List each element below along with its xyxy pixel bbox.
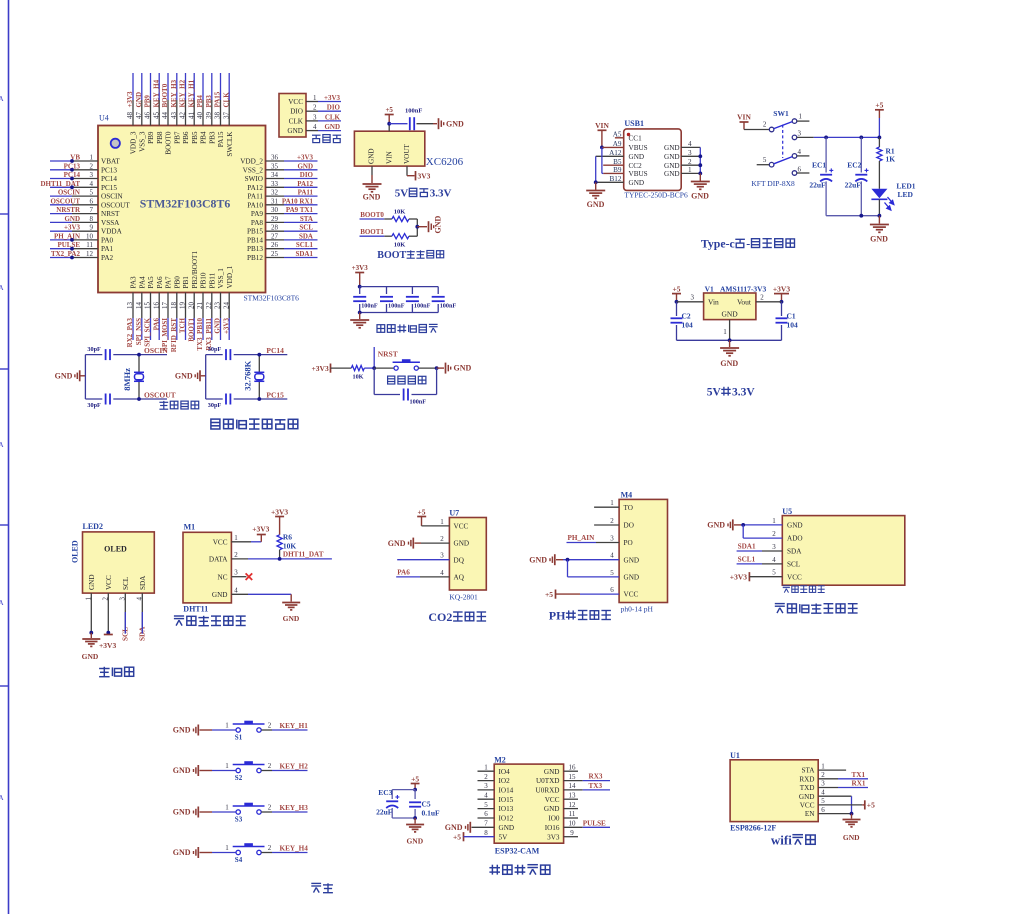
svg-text:KEY_H3: KEY_H3 <box>280 804 309 812</box>
svg-text:2: 2 <box>610 517 614 525</box>
label 光照强度传感器 <box>775 604 785 614</box>
svg-text:11: 11 <box>569 810 576 818</box>
svg-text:PC14: PC14 <box>266 346 284 355</box>
svg-text:9: 9 <box>90 224 94 232</box>
usb right pins <box>681 146 700 148</box>
svg-text:+3V3: +3V3 <box>312 364 329 373</box>
svg-text:PA5: PA5 <box>147 276 155 289</box>
svg-text:VIN: VIN <box>386 150 394 164</box>
net NRST <box>373 347 375 368</box>
svg-text:VBUS: VBUS <box>629 144 648 152</box>
mcu left pins 1-12 <box>50 160 72 162</box>
svg-text:DQ: DQ <box>454 556 465 564</box>
svg-text:PB14: PB14 <box>247 236 263 244</box>
svg-text:KQ-2801: KQ-2801 <box>449 593 478 602</box>
svg-text:M2: M2 <box>494 755 506 764</box>
svg-text:STM32F103C8T6: STM32F103C8T6 <box>140 197 231 211</box>
svg-text:PA6: PA6 <box>152 318 160 331</box>
svg-text:VCC: VCC <box>105 575 113 590</box>
svg-text:2: 2 <box>268 804 272 812</box>
svg-text:KEY_H2: KEY_H2 <box>179 79 187 107</box>
svg-text:PA10: PA10 <box>247 201 263 209</box>
svg-text:+3V3: +3V3 <box>773 285 790 294</box>
connector 下载口 <box>279 94 306 138</box>
svg-text:A: A <box>0 794 4 802</box>
svg-text:+3V3: +3V3 <box>64 224 81 232</box>
sheet border frame <box>8 0 10 914</box>
svg-text:1: 1 <box>234 534 238 542</box>
svg-text:GND: GND <box>324 123 340 131</box>
svg-text:GND: GND <box>297 162 313 170</box>
svg-text:KEY_H1: KEY_H1 <box>280 722 309 730</box>
svg-text:2: 2 <box>268 844 272 852</box>
svg-text:KEY_H4: KEY_H4 <box>280 844 309 852</box>
svg-text:5V: 5V <box>707 387 722 399</box>
regulator XC6206 <box>354 131 424 166</box>
svg-text:PB2/BOOT1: PB2/BOOT1 <box>191 251 199 289</box>
svg-text:IO0: IO0 <box>548 815 560 823</box>
svg-text:SPI_NSS: SPI_NSS <box>135 318 143 345</box>
label 单片机最小系统 <box>211 419 220 429</box>
svg-text:DO: DO <box>624 522 634 530</box>
svg-text:OSCIN: OSCIN <box>144 346 168 355</box>
svg-text:104: 104 <box>787 321 799 330</box>
svg-text:U0RXD: U0RXD <box>536 787 560 795</box>
svg-text:IO2: IO2 <box>499 777 511 785</box>
junction node <box>416 219 418 236</box>
svg-text:100nF: 100nF <box>388 303 405 310</box>
svg-text:23: 23 <box>214 302 222 310</box>
cap EC3 22uF <box>386 800 398 802</box>
svg-text:1: 1 <box>799 113 803 121</box>
gnd <box>406 824 424 826</box>
svg-text:PB1: PB1 <box>182 276 190 289</box>
svg-text:PA9: PA9 <box>251 210 264 218</box>
svg-text:3.3V: 3.3V <box>430 188 452 200</box>
svg-text:GND: GND <box>175 371 193 380</box>
svg-text:GND: GND <box>721 310 738 319</box>
svg-text:SDA: SDA <box>139 575 147 590</box>
svg-text:OSCIN: OSCIN <box>58 189 80 197</box>
svg-text:PB9: PB9 <box>147 131 155 144</box>
svg-text:1: 1 <box>225 722 229 730</box>
svg-text:32.768K: 32.768K <box>242 360 252 390</box>
dht11 pin1 +3V3 <box>231 541 251 543</box>
svg-text:DIO: DIO <box>300 171 314 179</box>
label 复位电路 <box>388 376 395 384</box>
svg-text:DHT11_DAT: DHT11_DAT <box>283 551 324 559</box>
svg-text:2: 2 <box>440 535 444 543</box>
svg-text:CLK: CLK <box>222 92 230 108</box>
svg-text:+3V3: +3V3 <box>252 525 269 534</box>
label 按键 <box>311 883 321 892</box>
svg-text:8: 8 <box>90 215 94 223</box>
svg-text:4: 4 <box>798 148 802 156</box>
svg-text:EC3: EC3 <box>378 788 392 797</box>
label 显示屏 <box>99 667 110 677</box>
svg-text:S1: S1 <box>235 734 243 742</box>
svg-text:VSS_1: VSS_1 <box>217 268 225 289</box>
svg-text:VDD_3: VDD_3 <box>130 131 138 154</box>
svg-text:USB1: USB1 <box>624 119 644 128</box>
svg-text:M1: M1 <box>184 523 196 532</box>
svg-text:15: 15 <box>569 773 577 781</box>
svg-text:10: 10 <box>86 232 94 240</box>
svg-text:VBUS: VBUS <box>629 170 648 178</box>
svg-text:DIO: DIO <box>327 104 341 112</box>
svg-text:104: 104 <box>682 321 694 330</box>
svg-text:GND: GND <box>388 539 406 548</box>
svg-text:PB5: PB5 <box>191 131 199 144</box>
svg-text:PA8: PA8 <box>251 219 264 227</box>
svg-text:GND: GND <box>287 127 303 135</box>
svg-text:GND: GND <box>212 591 228 599</box>
svg-text:RX3: RX3 <box>589 773 603 781</box>
svg-text:37: 37 <box>222 112 230 120</box>
svg-text:GND: GND <box>664 170 680 178</box>
push button <box>374 367 394 369</box>
svg-text:PA10 RX1: PA10 RX1 <box>282 197 314 205</box>
svg-text:3: 3 <box>119 597 127 601</box>
svg-text:U4: U4 <box>99 114 109 123</box>
label 下载口 <box>312 135 321 142</box>
svg-text:3: 3 <box>90 171 94 179</box>
svg-text:3V3: 3V3 <box>547 833 560 841</box>
svg-text:GND: GND <box>64 215 80 223</box>
svg-text:S2: S2 <box>235 774 243 782</box>
svg-text:VIN: VIN <box>595 121 609 130</box>
svg-text:RFID_RST: RFID_RST <box>170 318 178 353</box>
svg-text:VSS_2: VSS_2 <box>243 166 264 174</box>
svg-text:ESP32-CAM: ESP32-CAM <box>495 847 540 856</box>
svg-text:GND: GND <box>173 726 191 735</box>
svg-text:DATA: DATA <box>209 556 228 564</box>
svg-text:39: 39 <box>205 112 213 120</box>
svg-text:DIO: DIO <box>290 108 303 116</box>
svg-text:4: 4 <box>484 792 488 800</box>
svg-text:14: 14 <box>135 302 143 310</box>
svg-text:SDA: SDA <box>299 232 313 240</box>
svg-text:C5: C5 <box>422 800 431 809</box>
svg-text:+3V3: +3V3 <box>222 318 230 335</box>
svg-text:22uF: 22uF <box>376 808 393 817</box>
svg-text:GND: GND <box>173 808 191 817</box>
svg-text:TXD: TXD <box>800 784 815 792</box>
svg-text:PC13: PC13 <box>101 166 117 174</box>
svg-text:1: 1 <box>610 499 614 507</box>
svg-text:GND: GND <box>446 119 464 128</box>
svg-text:GND: GND <box>135 92 143 108</box>
svg-text:PA4: PA4 <box>138 276 146 289</box>
svg-text:DHT11_DAT: DHT11_DAT <box>40 180 80 188</box>
svg-text:OSCOUT: OSCOUT <box>144 391 176 400</box>
mcu right pins 36-25 <box>266 160 285 162</box>
svg-text:2: 2 <box>313 104 317 112</box>
svg-text:GND: GND <box>629 153 645 161</box>
mcu bottom pins 13-24 <box>132 293 134 319</box>
svg-text:NC: NC <box>218 573 228 581</box>
svg-text:BOOT0: BOOT0 <box>165 131 173 155</box>
label 晶振电路 <box>159 401 168 409</box>
svg-text:GND: GND <box>587 200 605 209</box>
svg-text:TO: TO <box>624 504 633 512</box>
svg-text:PB4: PB4 <box>200 131 208 144</box>
svg-text:VCC: VCC <box>454 523 469 531</box>
svg-text:TX3: TX3 <box>589 782 603 790</box>
svg-text:CC1: CC1 <box>629 134 643 142</box>
svg-text:0.1uF: 0.1uF <box>422 809 441 818</box>
svg-text:VCC: VCC <box>213 538 228 546</box>
label 光照传感器 <box>783 586 790 593</box>
svg-text:3: 3 <box>234 569 238 577</box>
svg-text:29: 29 <box>271 215 279 223</box>
svg-text:Vin: Vin <box>708 298 719 307</box>
svg-text:100nF: 100nF <box>410 399 427 406</box>
svg-text:+3V3: +3V3 <box>99 641 116 650</box>
svg-text:A: A <box>0 95 4 103</box>
svg-text:Type-c: Type-c <box>701 237 735 251</box>
svg-text:IO13: IO13 <box>499 805 514 813</box>
svg-text:2: 2 <box>763 121 767 129</box>
svg-text:BOOT1: BOOT1 <box>360 228 384 236</box>
svg-text:4: 4 <box>90 180 94 188</box>
svg-text:GND: GND <box>445 823 463 832</box>
svg-text:3: 3 <box>798 129 802 137</box>
svg-text:OLED: OLED <box>71 540 80 563</box>
svg-text:BOOT: BOOT <box>377 250 406 261</box>
svg-text:38: 38 <box>214 112 222 120</box>
svg-text:1: 1 <box>772 517 776 525</box>
svg-text:PB4: PB4 <box>196 95 204 108</box>
svg-text:PB15: PB15 <box>247 228 263 236</box>
svg-text:V1: V1 <box>705 285 714 294</box>
svg-text:+5: +5 <box>385 106 393 114</box>
svg-text:RX2_PA3: RX2_PA3 <box>126 318 134 348</box>
svg-text:IO12: IO12 <box>499 815 514 823</box>
svg-text:SWIO: SWIO <box>245 175 263 183</box>
svg-text:GND: GND <box>707 521 725 530</box>
svg-text:Vout: Vout <box>737 298 752 307</box>
svg-text:TX2_PA2: TX2_PA2 <box>51 250 81 258</box>
svg-text:OSCOUT: OSCOUT <box>50 197 80 205</box>
svg-text:SCL1: SCL1 <box>738 556 756 564</box>
svg-text:GND: GND <box>799 793 815 801</box>
cap C5 0.1uF <box>414 790 416 799</box>
svg-text:19: 19 <box>179 302 187 310</box>
svg-text:1: 1 <box>723 328 727 336</box>
svg-text:2: 2 <box>234 551 238 559</box>
svg-text:GND: GND <box>664 162 680 170</box>
svg-text:TCH: TCH <box>179 317 187 333</box>
svg-text:1K: 1K <box>886 155 896 164</box>
svg-text:18: 18 <box>170 302 178 310</box>
svg-text:1: 1 <box>484 763 488 771</box>
svg-text:22: 22 <box>205 302 213 310</box>
svg-text:PC15: PC15 <box>101 184 117 192</box>
svg-text:PB7: PB7 <box>173 131 181 144</box>
svg-text:PH_AIN: PH_AIN <box>54 232 80 240</box>
svg-text:6: 6 <box>484 810 488 818</box>
svg-text:45: 45 <box>152 112 160 120</box>
svg-text:GND: GND <box>454 364 472 373</box>
svg-text:2: 2 <box>90 162 94 170</box>
oled pin1 gnd <box>89 631 93 635</box>
svg-text:+5: +5 <box>411 774 419 783</box>
svg-text:KFT DIP-8X8: KFT DIP-8X8 <box>751 179 795 188</box>
svg-text:TYPEC-250D-BCP6: TYPEC-250D-BCP6 <box>624 191 688 200</box>
esp32 right wires <box>564 770 578 772</box>
mcu U4 STM32F103C8T6 <box>98 126 266 293</box>
svg-text:5V: 5V <box>499 833 509 841</box>
svg-text:20: 20 <box>187 302 195 310</box>
svg-text:PA7: PA7 <box>165 276 173 289</box>
svg-text:2: 2 <box>772 530 776 538</box>
svg-text:PA11: PA11 <box>248 193 264 201</box>
svg-text:NRST: NRST <box>101 210 120 218</box>
svg-text:8MHz: 8MHz <box>122 368 132 391</box>
svg-text:GND: GND <box>214 318 222 334</box>
svg-text:U1: U1 <box>730 751 740 760</box>
svg-text:GND: GND <box>55 371 73 380</box>
svg-text:PA12: PA12 <box>297 180 313 188</box>
svg-text:PULSE: PULSE <box>57 241 80 249</box>
svg-text:15: 15 <box>144 302 152 310</box>
svg-text:VOUT: VOUT <box>403 143 411 164</box>
svg-text:3V3: 3V3 <box>418 171 431 180</box>
svg-text:A: A <box>0 441 4 449</box>
svg-text:PA15: PA15 <box>217 131 225 147</box>
gnd <box>350 319 369 321</box>
svg-text:CC2: CC2 <box>629 162 643 170</box>
svg-text:1: 1 <box>688 166 692 174</box>
svg-text:GND: GND <box>82 652 99 661</box>
svg-text:OSCIN: OSCIN <box>101 193 123 201</box>
svg-text:100nF: 100nF <box>414 303 431 310</box>
svg-text:ADO: ADO <box>787 535 803 543</box>
svg-text:43: 43 <box>170 112 178 120</box>
capacitor 100nF <box>386 287 388 294</box>
svg-text:PB8: PB8 <box>156 131 164 144</box>
svg-text:13: 13 <box>569 792 577 800</box>
svg-text:GND: GND <box>720 359 738 368</box>
svg-text:U5: U5 <box>782 507 792 516</box>
svg-text:GND: GND <box>454 540 470 548</box>
svg-text:14: 14 <box>569 782 577 790</box>
svg-text:CLK: CLK <box>325 113 341 121</box>
svg-text:TX1: TX1 <box>852 771 866 779</box>
svg-text:PA0: PA0 <box>101 236 114 244</box>
svg-text:3: 3 <box>691 294 695 302</box>
svg-text:+3V3: +3V3 <box>271 508 288 517</box>
svg-text:1: 1 <box>85 597 93 601</box>
svg-text:CO2: CO2 <box>428 610 452 624</box>
svg-text:6: 6 <box>798 165 802 173</box>
svg-text:AMS1117-3V3: AMS1117-3V3 <box>720 285 767 294</box>
svg-text:GND: GND <box>406 837 423 846</box>
svg-text:16: 16 <box>569 763 577 771</box>
svg-text:NRSTR: NRSTR <box>56 206 81 214</box>
svg-text:VCC: VCC <box>800 802 815 810</box>
svg-text:1: 1 <box>225 804 229 812</box>
svg-text:47: 47 <box>135 112 143 120</box>
svg-text:9: 9 <box>570 829 574 837</box>
svg-text:BOOT0: BOOT0 <box>360 211 384 219</box>
svg-text:LED2: LED2 <box>83 522 103 531</box>
power +5 <box>385 114 394 116</box>
svg-text:36: 36 <box>271 154 279 162</box>
svg-text:PO: PO <box>624 539 633 547</box>
svg-text:GND: GND <box>629 179 645 187</box>
svg-text:SDA1: SDA1 <box>295 250 313 258</box>
svg-text:GND: GND <box>664 144 680 152</box>
svg-text:3: 3 <box>610 535 614 543</box>
svg-text:33: 33 <box>271 180 279 188</box>
svg-text:GND: GND <box>368 148 376 164</box>
wifi pin wires <box>818 769 846 771</box>
svg-text:+5: +5 <box>875 101 883 110</box>
svg-text:GND: GND <box>870 235 888 244</box>
svg-text:7: 7 <box>90 206 94 214</box>
svg-text:PC15: PC15 <box>266 391 284 400</box>
svg-text:32: 32 <box>271 189 279 197</box>
svg-text:GND: GND <box>499 824 515 832</box>
svg-text:10K: 10K <box>352 374 363 381</box>
gnd <box>870 224 889 226</box>
svg-text:GND: GND <box>691 192 709 201</box>
svg-text:EC2: EC2 <box>847 161 861 170</box>
svg-text:2: 2 <box>484 773 488 781</box>
wires usb left <box>615 137 624 139</box>
svg-text:1: 1 <box>821 762 825 770</box>
gnd port right of cap <box>433 123 437 125</box>
svg-text:wifi: wifi <box>771 833 792 848</box>
svg-text:ESP8266-12F: ESP8266-12F <box>730 824 776 833</box>
svg-text:IO15: IO15 <box>499 796 514 804</box>
svg-text:SDA1: SDA1 <box>738 543 756 551</box>
mcu top pins 48-37 <box>132 73 134 100</box>
svg-text:S4: S4 <box>235 856 243 864</box>
3V3 output <box>406 166 408 176</box>
svg-text:1: 1 <box>90 154 94 162</box>
gnd <box>843 819 861 821</box>
svg-text:41: 41 <box>187 112 195 120</box>
svg-text:+5: +5 <box>867 801 875 810</box>
svg-text:R6: R6 <box>283 533 292 542</box>
svg-text:8: 8 <box>484 829 488 837</box>
svg-text:2: 2 <box>821 771 825 779</box>
svg-text:OLED: OLED <box>104 545 127 554</box>
svg-text:5: 5 <box>90 189 94 197</box>
svg-text:4: 4 <box>821 788 825 796</box>
svg-text:PB3: PB3 <box>208 131 216 144</box>
svg-text:PA3: PA3 <box>130 276 138 289</box>
svg-text:SDA: SDA <box>787 548 802 556</box>
svg-text:S3: S3 <box>235 816 243 824</box>
svg-text:6: 6 <box>90 197 94 205</box>
co2 pin3 wire <box>397 559 449 561</box>
capacitor 100nF loop <box>373 368 375 394</box>
svg-text:+5: +5 <box>672 285 680 294</box>
svg-text:EC1: EC1 <box>812 161 826 170</box>
svg-text:11: 11 <box>86 241 93 249</box>
svg-text:VCC: VCC <box>787 573 802 581</box>
svg-text:CLK: CLK <box>289 117 304 125</box>
svg-text:GND: GND <box>363 193 381 202</box>
svg-text:VDDA: VDDA <box>101 228 123 236</box>
svg-text:RXD: RXD <box>799 775 814 783</box>
svg-text:VDD_2: VDD_2 <box>240 158 263 166</box>
svg-text:KEY_H2: KEY_H2 <box>280 762 309 770</box>
